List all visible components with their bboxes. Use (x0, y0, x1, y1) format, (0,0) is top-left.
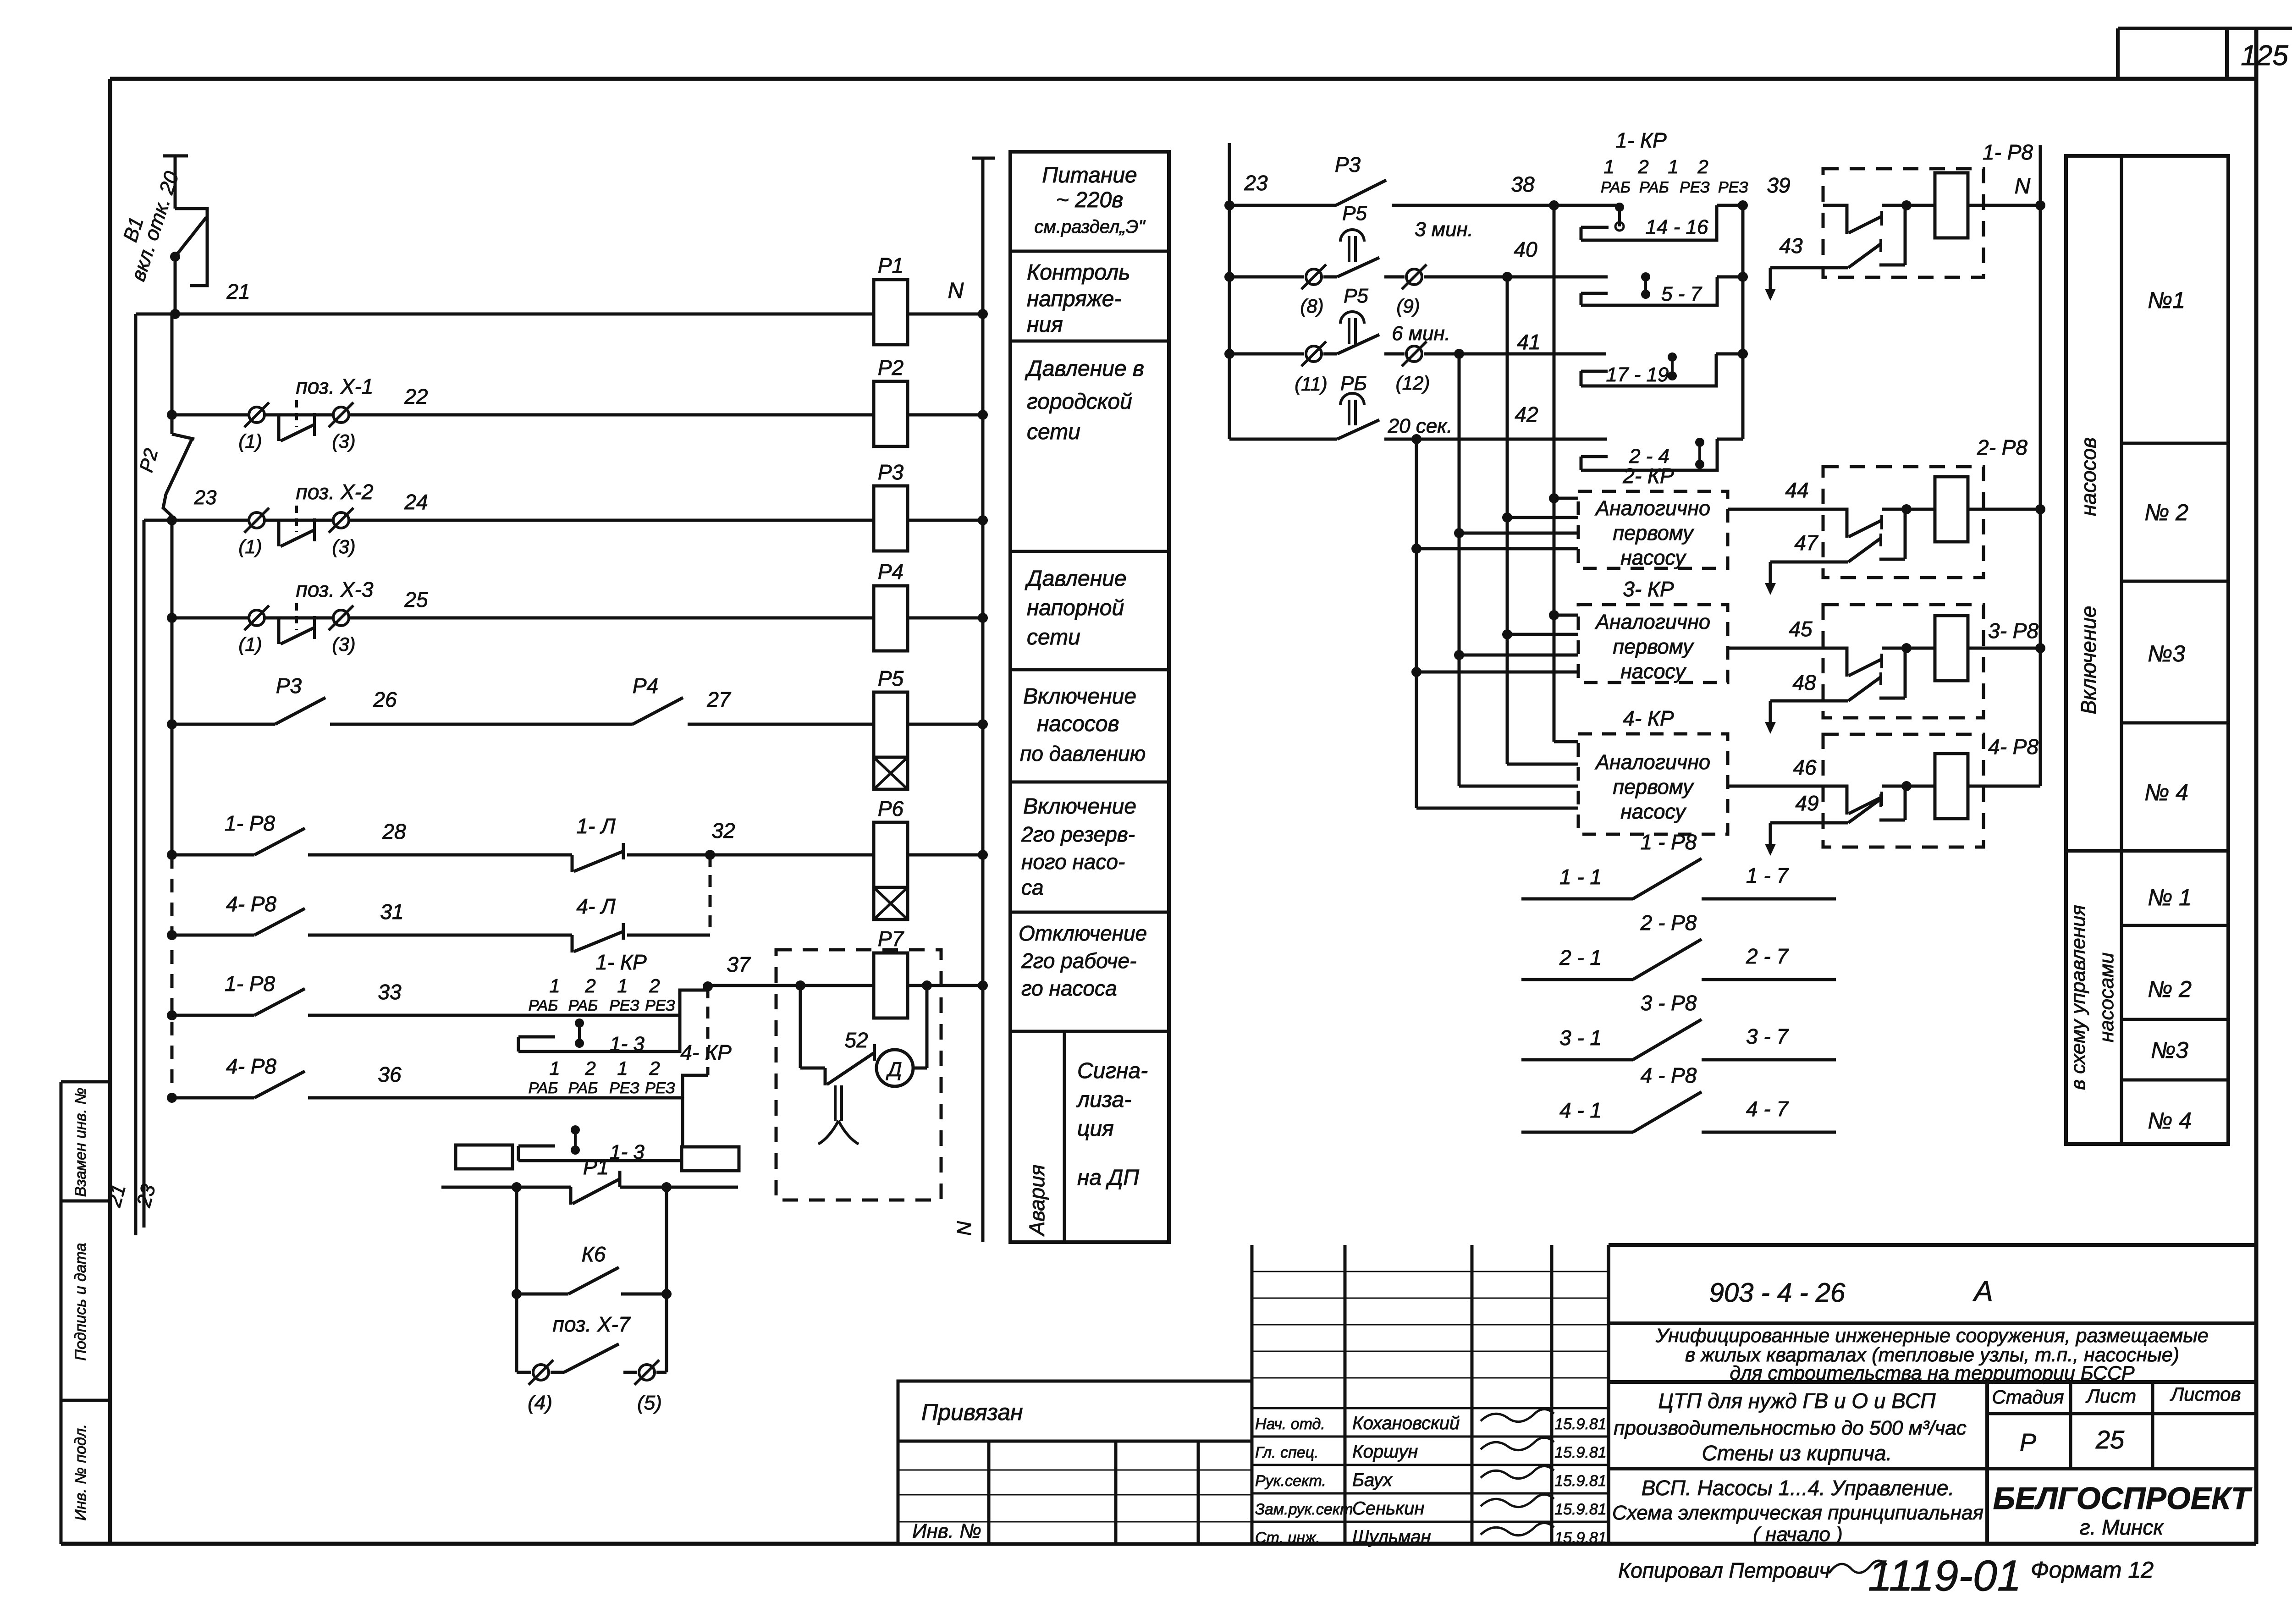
svg-text:2- Р8: 2- Р8 (1977, 435, 2028, 459)
svg-text:К6: К6 (582, 1242, 606, 1266)
svg-text:поз. Х-1: поз. Х-1 (296, 374, 374, 398)
svg-text:~ 220в: ~ 220в (1056, 188, 1124, 212)
svg-text:Авария: Авария (1025, 1164, 1049, 1237)
svg-text:РЕЗ: РЕЗ (645, 1079, 675, 1097)
svg-text:(4): (4) (528, 1392, 552, 1414)
svg-text:1- Р8: 1- Р8 (225, 811, 275, 835)
svg-text:15.9.81: 15.9.81 (1554, 1472, 1606, 1490)
svg-text:РАБ: РАБ (1601, 179, 1631, 196)
svg-text:1 - Р8: 1 - Р8 (1641, 830, 1697, 854)
svg-text:1- КР: 1- КР (595, 950, 647, 974)
svg-text:ция: ция (1077, 1117, 1114, 1141)
svg-text:Давление в: Давление в (1025, 357, 1144, 381)
svg-text:Включение: Включение (1023, 794, 1136, 819)
svg-text:2: 2 (584, 975, 595, 996)
svg-text:37: 37 (727, 952, 751, 976)
svg-text:А: А (1972, 1276, 1993, 1307)
svg-text:45: 45 (1789, 617, 1813, 641)
svg-text:26: 26 (373, 688, 397, 711)
svg-text:1: 1 (617, 1057, 628, 1079)
svg-text:Р5: Р5 (878, 666, 904, 690)
svg-text:24: 24 (404, 490, 428, 514)
svg-text:( начало ): ( начало ) (1753, 1523, 1843, 1546)
svg-text:Кохановский: Кохановский (1352, 1413, 1460, 1433)
svg-text:насосов: насосов (1037, 712, 1119, 736)
svg-text:РАБ: РАБ (529, 997, 558, 1014)
svg-text:1 - 7: 1 - 7 (1746, 864, 1789, 887)
svg-text:32: 32 (711, 819, 735, 842)
svg-text:ЦТП для нужд ГВ и О и ВСП: ЦТП для нужд ГВ и О и ВСП (1658, 1389, 1936, 1413)
svg-text:в схему управления: в схему управления (2067, 905, 2089, 1090)
svg-text:1- Р8: 1- Р8 (1983, 140, 2033, 164)
svg-text:ного насо-: ного насо- (1021, 850, 1125, 874)
svg-text:см.раздел„Э": см.раздел„Э" (1034, 217, 1146, 237)
svg-text:2 - Р8: 2 - Р8 (1640, 911, 1697, 935)
svg-text:Включение: Включение (1023, 684, 1136, 709)
svg-text:1- Л: 1- Л (576, 814, 616, 838)
svg-text:1: 1 (549, 1057, 560, 1079)
svg-text:3- КР: 3- КР (1623, 577, 1674, 601)
svg-text:первому: первому (1613, 521, 1694, 545)
svg-text:15.9.81: 15.9.81 (1554, 1415, 1606, 1433)
svg-text:РАБ: РАБ (568, 1079, 598, 1097)
svg-text:сети: сети (1027, 420, 1080, 444)
svg-text:Р4: Р4 (633, 674, 658, 698)
svg-text:31: 31 (380, 900, 403, 924)
svg-text:Контроль: Контроль (1027, 260, 1130, 285)
svg-text:1: 1 (617, 975, 628, 996)
svg-text:№3: №3 (2151, 1037, 2188, 1063)
svg-text:15.9.81: 15.9.81 (1554, 1444, 1606, 1461)
svg-text:БЕЛГОСПРОЕКТ: БЕЛГОСПРОЕКТ (1993, 1481, 2253, 1516)
svg-text:поз. Х-3: поз. Х-3 (296, 578, 374, 601)
svg-text:(3): (3) (332, 633, 355, 655)
svg-text:РАБ: РАБ (568, 997, 598, 1014)
svg-text:Схема электрическая принципиал: Схема электрическая принципиальная (1612, 1502, 1983, 1524)
svg-text:напорной: напорной (1027, 596, 1124, 620)
svg-text:39: 39 (1767, 173, 1790, 197)
svg-text:Сигна-: Сигна- (1077, 1059, 1148, 1083)
svg-text:36: 36 (378, 1062, 402, 1086)
svg-text:42: 42 (1515, 402, 1538, 426)
svg-text:33: 33 (378, 980, 402, 1004)
svg-text:Р2: Р2 (878, 356, 904, 380)
svg-text:1- КР: 1- КР (1615, 128, 1667, 152)
svg-text:1119-01: 1119-01 (1868, 1552, 2022, 1600)
svg-text:насосов: насосов (2077, 437, 2100, 516)
svg-text:Аналогично: Аналогично (1594, 750, 1710, 774)
svg-text:17 - 19: 17 - 19 (1606, 363, 1669, 386)
svg-text:47: 47 (1794, 531, 1818, 555)
svg-text:28: 28 (382, 820, 406, 843)
svg-text:2: 2 (1637, 156, 1648, 177)
svg-text:2- КР: 2- КР (1622, 464, 1674, 488)
svg-text:Отключение: Отключение (1019, 921, 1147, 945)
svg-text:Зам.рук.сект: Зам.рук.сект (1255, 1501, 1353, 1518)
svg-text:Р1: Р1 (583, 1155, 609, 1179)
svg-text:Коршун: Коршун (1352, 1442, 1418, 1462)
svg-text:насосами: насосами (2095, 952, 2118, 1042)
svg-text:насосу: насосу (1620, 546, 1686, 569)
svg-text:N: N (953, 1221, 975, 1236)
svg-text:Р3: Р3 (878, 460, 904, 484)
svg-text:№ 4: № 4 (2148, 1108, 2192, 1134)
svg-text:Давление: Давление (1025, 567, 1127, 591)
svg-text:(9): (9) (1396, 295, 1420, 317)
svg-text:Рук.сект.: Рук.сект. (1255, 1472, 1326, 1490)
svg-text:27: 27 (706, 688, 731, 711)
svg-text:№ 2: № 2 (2144, 500, 2188, 525)
svg-text:поз. Х-7: поз. Х-7 (553, 1312, 631, 1336)
svg-text:Р3: Р3 (276, 674, 302, 698)
svg-text:(1): (1) (238, 536, 262, 557)
svg-text:4- КР: 4- КР (680, 1040, 732, 1064)
svg-text:4 - 1: 4 - 1 (1559, 1098, 1602, 1122)
svg-text:Подпись и дата: Подпись и дата (72, 1243, 89, 1360)
svg-text:3 - 1: 3 - 1 (1559, 1026, 1602, 1050)
svg-text:РЕЗ: РЕЗ (1718, 179, 1748, 196)
svg-text:6 мин.: 6 мин. (1392, 322, 1450, 345)
svg-text:производительностью до 500 м³/: производительностью до 500 м³/час (1614, 1417, 1967, 1439)
svg-text:4 - 7: 4 - 7 (1746, 1097, 1789, 1121)
svg-text:4- Р8: 4- Р8 (1988, 735, 2039, 759)
svg-text:Аналогично: Аналогично (1594, 610, 1710, 633)
svg-text:РАБ: РАБ (1639, 179, 1669, 196)
svg-text:4- Р8: 4- Р8 (226, 1054, 276, 1078)
svg-text:РЕЗ: РЕЗ (645, 997, 675, 1014)
svg-text:1 - 1: 1 - 1 (1559, 865, 1602, 889)
svg-text:лиза-: лиза- (1076, 1088, 1131, 1112)
svg-text:РАБ: РАБ (529, 1079, 558, 1097)
svg-text:2: 2 (649, 1057, 660, 1079)
svg-text:первому: первому (1613, 775, 1694, 798)
svg-text:(11): (11) (1295, 373, 1328, 395)
svg-text:15.9.81: 15.9.81 (1554, 1501, 1606, 1518)
svg-text:2: 2 (1697, 156, 1708, 177)
svg-text:ВСП. Насосы 1...4. Управление.: ВСП. Насосы 1...4. Управление. (1642, 1476, 1955, 1500)
svg-text:Р: Р (2020, 1429, 2036, 1456)
svg-text:Нач. отд.: Нач. отд. (1255, 1415, 1325, 1433)
svg-text:Р4: Р4 (878, 560, 904, 584)
svg-text:ния: ния (1027, 313, 1063, 337)
svg-text:са: са (1021, 875, 1044, 899)
svg-text:Р6: Р6 (878, 797, 904, 820)
svg-text:насосу: насосу (1620, 660, 1686, 683)
svg-text:1- 3: 1- 3 (610, 1033, 645, 1055)
svg-text:на ДП: на ДП (1077, 1166, 1139, 1190)
svg-text:40: 40 (1514, 237, 1537, 261)
svg-text:Д: Д (886, 1058, 902, 1081)
svg-text:2 - 7: 2 - 7 (1746, 944, 1789, 968)
svg-text:5 - 7: 5 - 7 (1661, 283, 1702, 305)
svg-text:2: 2 (584, 1057, 595, 1079)
svg-text:по давлению: по давлению (1020, 742, 1146, 765)
svg-text:(1): (1) (238, 633, 262, 655)
svg-text:1: 1 (1668, 156, 1678, 177)
svg-text:г. Минск: г. Минск (2080, 1515, 2164, 1539)
svg-text:125: 125 (2241, 40, 2288, 72)
svg-text:Питание: Питание (1042, 163, 1137, 187)
svg-text:Ст. инж.: Ст. инж. (1255, 1529, 1320, 1547)
svg-text:№ 2: № 2 (2148, 976, 2192, 1002)
svg-text:Сенькин: Сенькин (1352, 1498, 1424, 1519)
svg-text:38: 38 (1511, 172, 1535, 196)
svg-text:Привязан: Привязан (921, 1399, 1023, 1425)
svg-text:1- Р8: 1- Р8 (225, 972, 275, 996)
svg-text:1: 1 (1603, 156, 1614, 177)
svg-text:РБ: РБ (1340, 372, 1367, 395)
svg-text:Р7: Р7 (878, 927, 904, 951)
svg-text:№1: №1 (2148, 287, 2185, 313)
svg-text:сети: сети (1027, 625, 1080, 650)
svg-text:напряже-: напряже- (1027, 287, 1121, 311)
svg-text:(8): (8) (1300, 295, 1323, 317)
svg-text:4- Р8: 4- Р8 (226, 892, 276, 916)
svg-text:Формат 12: Формат 12 (2031, 1557, 2154, 1583)
svg-text:21: 21 (226, 280, 250, 303)
svg-text:Р5: Р5 (1344, 285, 1368, 307)
svg-text:14 - 16: 14 - 16 (1646, 216, 1709, 238)
svg-text:23: 23 (1244, 171, 1268, 195)
svg-text:(3): (3) (332, 536, 355, 557)
svg-text:РЕЗ: РЕЗ (609, 1079, 639, 1097)
svg-text:Включение: Включение (2077, 606, 2100, 715)
svg-text:Гл. спец.: Гл. спец. (1255, 1444, 1319, 1461)
svg-text:15.9.81: 15.9.81 (1554, 1529, 1606, 1547)
svg-text:Стены из кирпича.: Стены из кирпича. (1702, 1441, 1892, 1465)
svg-text:23: 23 (194, 486, 217, 509)
svg-text:Аналогично: Аналогично (1594, 496, 1710, 520)
svg-text:2 - 1: 2 - 1 (1559, 946, 1602, 969)
svg-text:4- Л: 4- Л (576, 894, 616, 918)
svg-text:Баух: Баух (1352, 1470, 1393, 1490)
svg-text:3 - 7: 3 - 7 (1746, 1024, 1789, 1048)
svg-text:Р1: Р1 (878, 253, 904, 277)
svg-text:Копировал Петрович: Копировал Петрович (1618, 1558, 1830, 1582)
svg-text:Взамен инв. №: Взамен инв. № (72, 1088, 89, 1197)
svg-text:3 - Р8: 3 - Р8 (1641, 991, 1697, 1015)
svg-text:1: 1 (549, 975, 560, 996)
svg-text:43: 43 (1779, 234, 1803, 258)
svg-text:2го рабоче-: 2го рабоче- (1021, 949, 1136, 973)
svg-text:903 - 4 - 26: 903 - 4 - 26 (1709, 1278, 1846, 1308)
svg-text:20 сек.: 20 сек. (1388, 415, 1453, 437)
svg-text:3- Р8: 3- Р8 (1988, 619, 2039, 643)
svg-text:(12): (12) (1396, 372, 1430, 394)
svg-text:2го резерв-: 2го резерв- (1021, 822, 1135, 846)
svg-text:№3: №3 (2148, 641, 2185, 666)
svg-text:(5): (5) (637, 1392, 662, 1414)
svg-text:го насоса: го насоса (1021, 976, 1117, 1000)
svg-text:Шульман: Шульман (1352, 1527, 1431, 1547)
svg-text:22: 22 (404, 385, 428, 408)
svg-text:(3): (3) (332, 430, 355, 452)
svg-text:поз. Х-2: поз. Х-2 (296, 480, 374, 504)
svg-text:Р3: Р3 (1335, 153, 1361, 176)
svg-text:2: 2 (649, 975, 660, 996)
svg-text:25: 25 (2095, 1425, 2125, 1454)
svg-text:44: 44 (1785, 478, 1808, 502)
svg-text:52: 52 (844, 1028, 868, 1052)
svg-text:3 мин.: 3 мин. (1415, 218, 1473, 241)
svg-text:46: 46 (1793, 755, 1817, 779)
svg-text:Лист: Лист (2085, 1385, 2136, 1407)
svg-text:РЕЗ: РЕЗ (1680, 179, 1710, 196)
svg-text:№ 1: № 1 (2148, 885, 2192, 910)
svg-text:48: 48 (1792, 671, 1816, 694)
svg-text:первому: первому (1613, 635, 1694, 658)
svg-text:Инв. №: Инв. № (912, 1520, 981, 1542)
svg-text:4- КР: 4- КР (1623, 706, 1674, 730)
svg-text:4 - Р8: 4 - Р8 (1641, 1063, 1697, 1087)
svg-text:№ 4: № 4 (2144, 780, 2188, 805)
svg-text:N: N (948, 279, 964, 303)
svg-text:N: N (2015, 174, 2031, 198)
svg-text:городской: городской (1027, 390, 1132, 414)
svg-text:Стадия: Стадия (1992, 1386, 2064, 1408)
svg-text:49: 49 (1795, 791, 1818, 815)
svg-text:Унифицированные инженерные соо: Унифицированные инженерные сооружения, р… (1655, 1325, 2209, 1347)
svg-text:РЕЗ: РЕЗ (609, 997, 639, 1014)
svg-text:насосу: насосу (1620, 800, 1686, 823)
svg-text:25: 25 (404, 588, 428, 611)
svg-text:Р5: Р5 (1342, 202, 1367, 225)
svg-text:41: 41 (1517, 330, 1540, 354)
svg-text:(1): (1) (238, 430, 262, 452)
svg-text:1- 3: 1- 3 (610, 1141, 645, 1163)
svg-text:Листов: Листов (2170, 1383, 2241, 1405)
svg-text:Инв. № подл.: Инв. № подл. (72, 1424, 89, 1521)
